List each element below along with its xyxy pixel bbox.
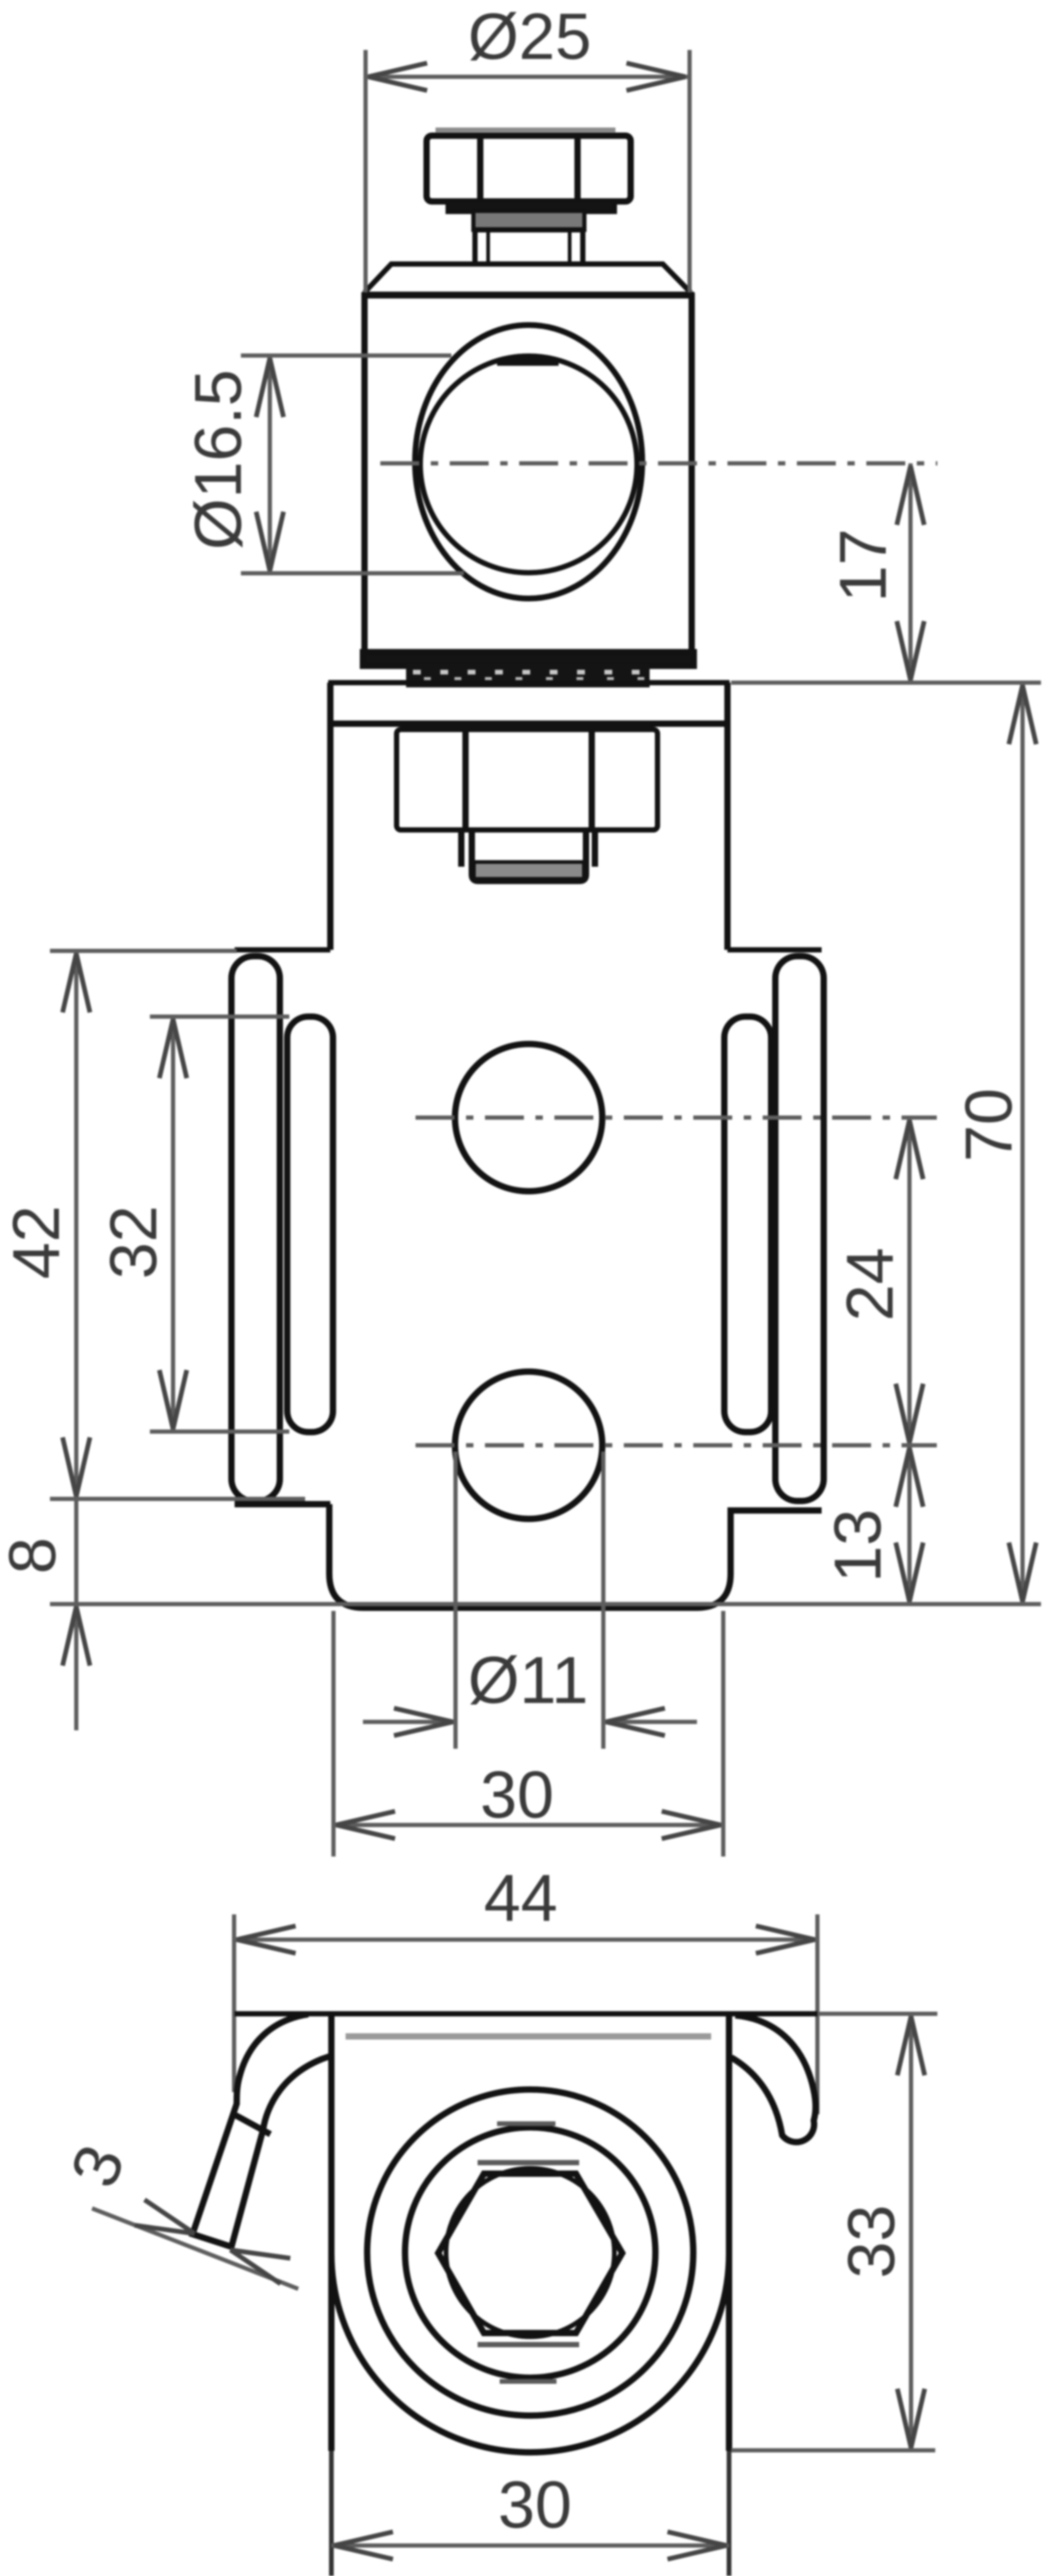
outer flange strip left (231, 956, 280, 1501)
nut chamfer circle (446, 2168, 614, 2337)
bolt threaded stub (view 2) (472, 830, 586, 881)
centre line lower hole (416, 1443, 937, 1447)
dim 30 (flat width) extension lines (331, 1611, 336, 1857)
svg-text:Ø25: Ø25 (468, 1, 591, 73)
dim Ø11 extension lines (453, 1452, 458, 1749)
common bottom extension line (50, 1602, 1041, 1606)
step shoulder lines (235, 947, 330, 952)
svg-text:13: 13 (821, 1509, 895, 1583)
dim 44 line (234, 1938, 817, 1942)
bolt M10 hex head (front view) (436, 128, 615, 133)
dim 44 extension lines (232, 1914, 236, 2092)
svg-text:17: 17 (826, 529, 900, 602)
clamp body chamfered top (365, 264, 691, 292)
conductor hole outer ellipse (415, 325, 642, 599)
hole top chord (497, 358, 559, 366)
conductor hole circle Ø16.5 (420, 356, 637, 573)
svg-text:33: 33 (834, 2205, 908, 2278)
bolt hex head (view 2) (397, 729, 657, 830)
bottom view rounded bottom outline (331, 2254, 729, 2452)
svg-text:Ø11: Ø11 (468, 1643, 589, 1717)
bolt shank (475, 230, 583, 264)
bolt washer (448, 200, 615, 212)
svg-text:42: 42 (0, 1205, 73, 1279)
dim 70 line (1020, 683, 1025, 1604)
step-in shoulder lines (235, 1501, 330, 1507)
dim 42 line (74, 951, 78, 1499)
dim Ø11 arrows outside (363, 1720, 456, 1724)
bracket plate fold line (330, 721, 727, 727)
bottom view top edge (235, 2011, 817, 2016)
inner flange strip left (287, 1017, 333, 1432)
dim 24 / 13 line (907, 1118, 912, 1604)
svg-text:24: 24 (833, 1248, 907, 1321)
dim 32 extension top (150, 1015, 289, 1019)
dimension Ø16.5 line (268, 356, 272, 573)
svg-text:30: 30 (498, 2468, 572, 2542)
dimension 17 line (908, 463, 913, 683)
right hook (bent clip) (731, 2015, 816, 2142)
dimension Ø25 extension lines (363, 50, 368, 292)
outer flange strip right (775, 956, 824, 1501)
washer outer circle (367, 2090, 693, 2416)
svg-text:30: 30 (480, 1758, 554, 1832)
centre line of hole (380, 461, 937, 465)
inner flange strip right (724, 1017, 771, 1432)
dim 32 line (171, 1017, 175, 1432)
svg-text:32: 32 (96, 1205, 170, 1279)
nut hexagon (438, 2174, 622, 2333)
dimension Ø25 line (366, 75, 687, 79)
svg-text:3: 3 (56, 2135, 139, 2196)
svg-text:44: 44 (484, 1861, 558, 1935)
washer inner circle (405, 2127, 655, 2378)
bottom view side edges (328, 2014, 335, 2451)
dim 8 line below (74, 1499, 78, 1730)
svg-text:Ø16.5: Ø16.5 (181, 369, 255, 550)
centre line upper hole (416, 1115, 937, 1120)
svg-text:8: 8 (0, 1537, 69, 1574)
clamp body sides (361, 292, 368, 655)
dim 70 top extension (731, 681, 1041, 685)
dim 30 bottom extension lines (329, 2451, 334, 2576)
dim 42 extension top (50, 949, 237, 953)
dim 33 extension lines (820, 2012, 937, 2016)
serrated interface band (406, 664, 650, 687)
bracket plate lower sides and rounded bottom (329, 1504, 731, 1608)
hole Ø11 lower (455, 1372, 602, 1519)
dim 33 line (909, 2014, 913, 2450)
dim 3 leader line (92, 2208, 298, 2289)
hidden washer edge (346, 2033, 711, 2040)
svg-text:70: 70 (952, 1088, 1026, 1162)
dim 30 bottom line (331, 2543, 729, 2548)
dim 32 extension bottom (150, 1429, 289, 1434)
dim 42 extension bottom (50, 1497, 305, 1501)
dim 30 line (333, 1823, 723, 1827)
clamp body bottom bar (363, 652, 694, 666)
bolt washer cup (view 2) (461, 830, 595, 867)
hook bend break line (236, 2115, 270, 2134)
left hook (bent clip) (193, 2014, 332, 2247)
dimension Ø16.5 extension lines (241, 353, 451, 358)
bracket plate upper sides (327, 683, 333, 950)
hole Ø11 upper (455, 1044, 602, 1191)
bracket plate top edge (328, 680, 730, 685)
bolt collar (473, 211, 584, 230)
